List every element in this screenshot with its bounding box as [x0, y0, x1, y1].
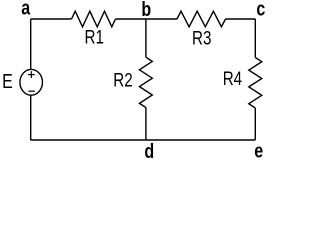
svg-text:R4: R4 — [223, 67, 243, 89]
svg-text:R3: R3 — [192, 27, 211, 49]
svg-text:b: b — [141, 0, 151, 20]
svg-text:a: a — [21, 0, 31, 19]
svg-text:e: e — [254, 140, 263, 162]
svg-text:R2: R2 — [113, 69, 132, 91]
svg-text:R1: R1 — [85, 26, 104, 48]
svg-text:c: c — [256, 0, 265, 20]
svg-text:d: d — [144, 141, 154, 163]
svg-text:E: E — [2, 71, 13, 93]
